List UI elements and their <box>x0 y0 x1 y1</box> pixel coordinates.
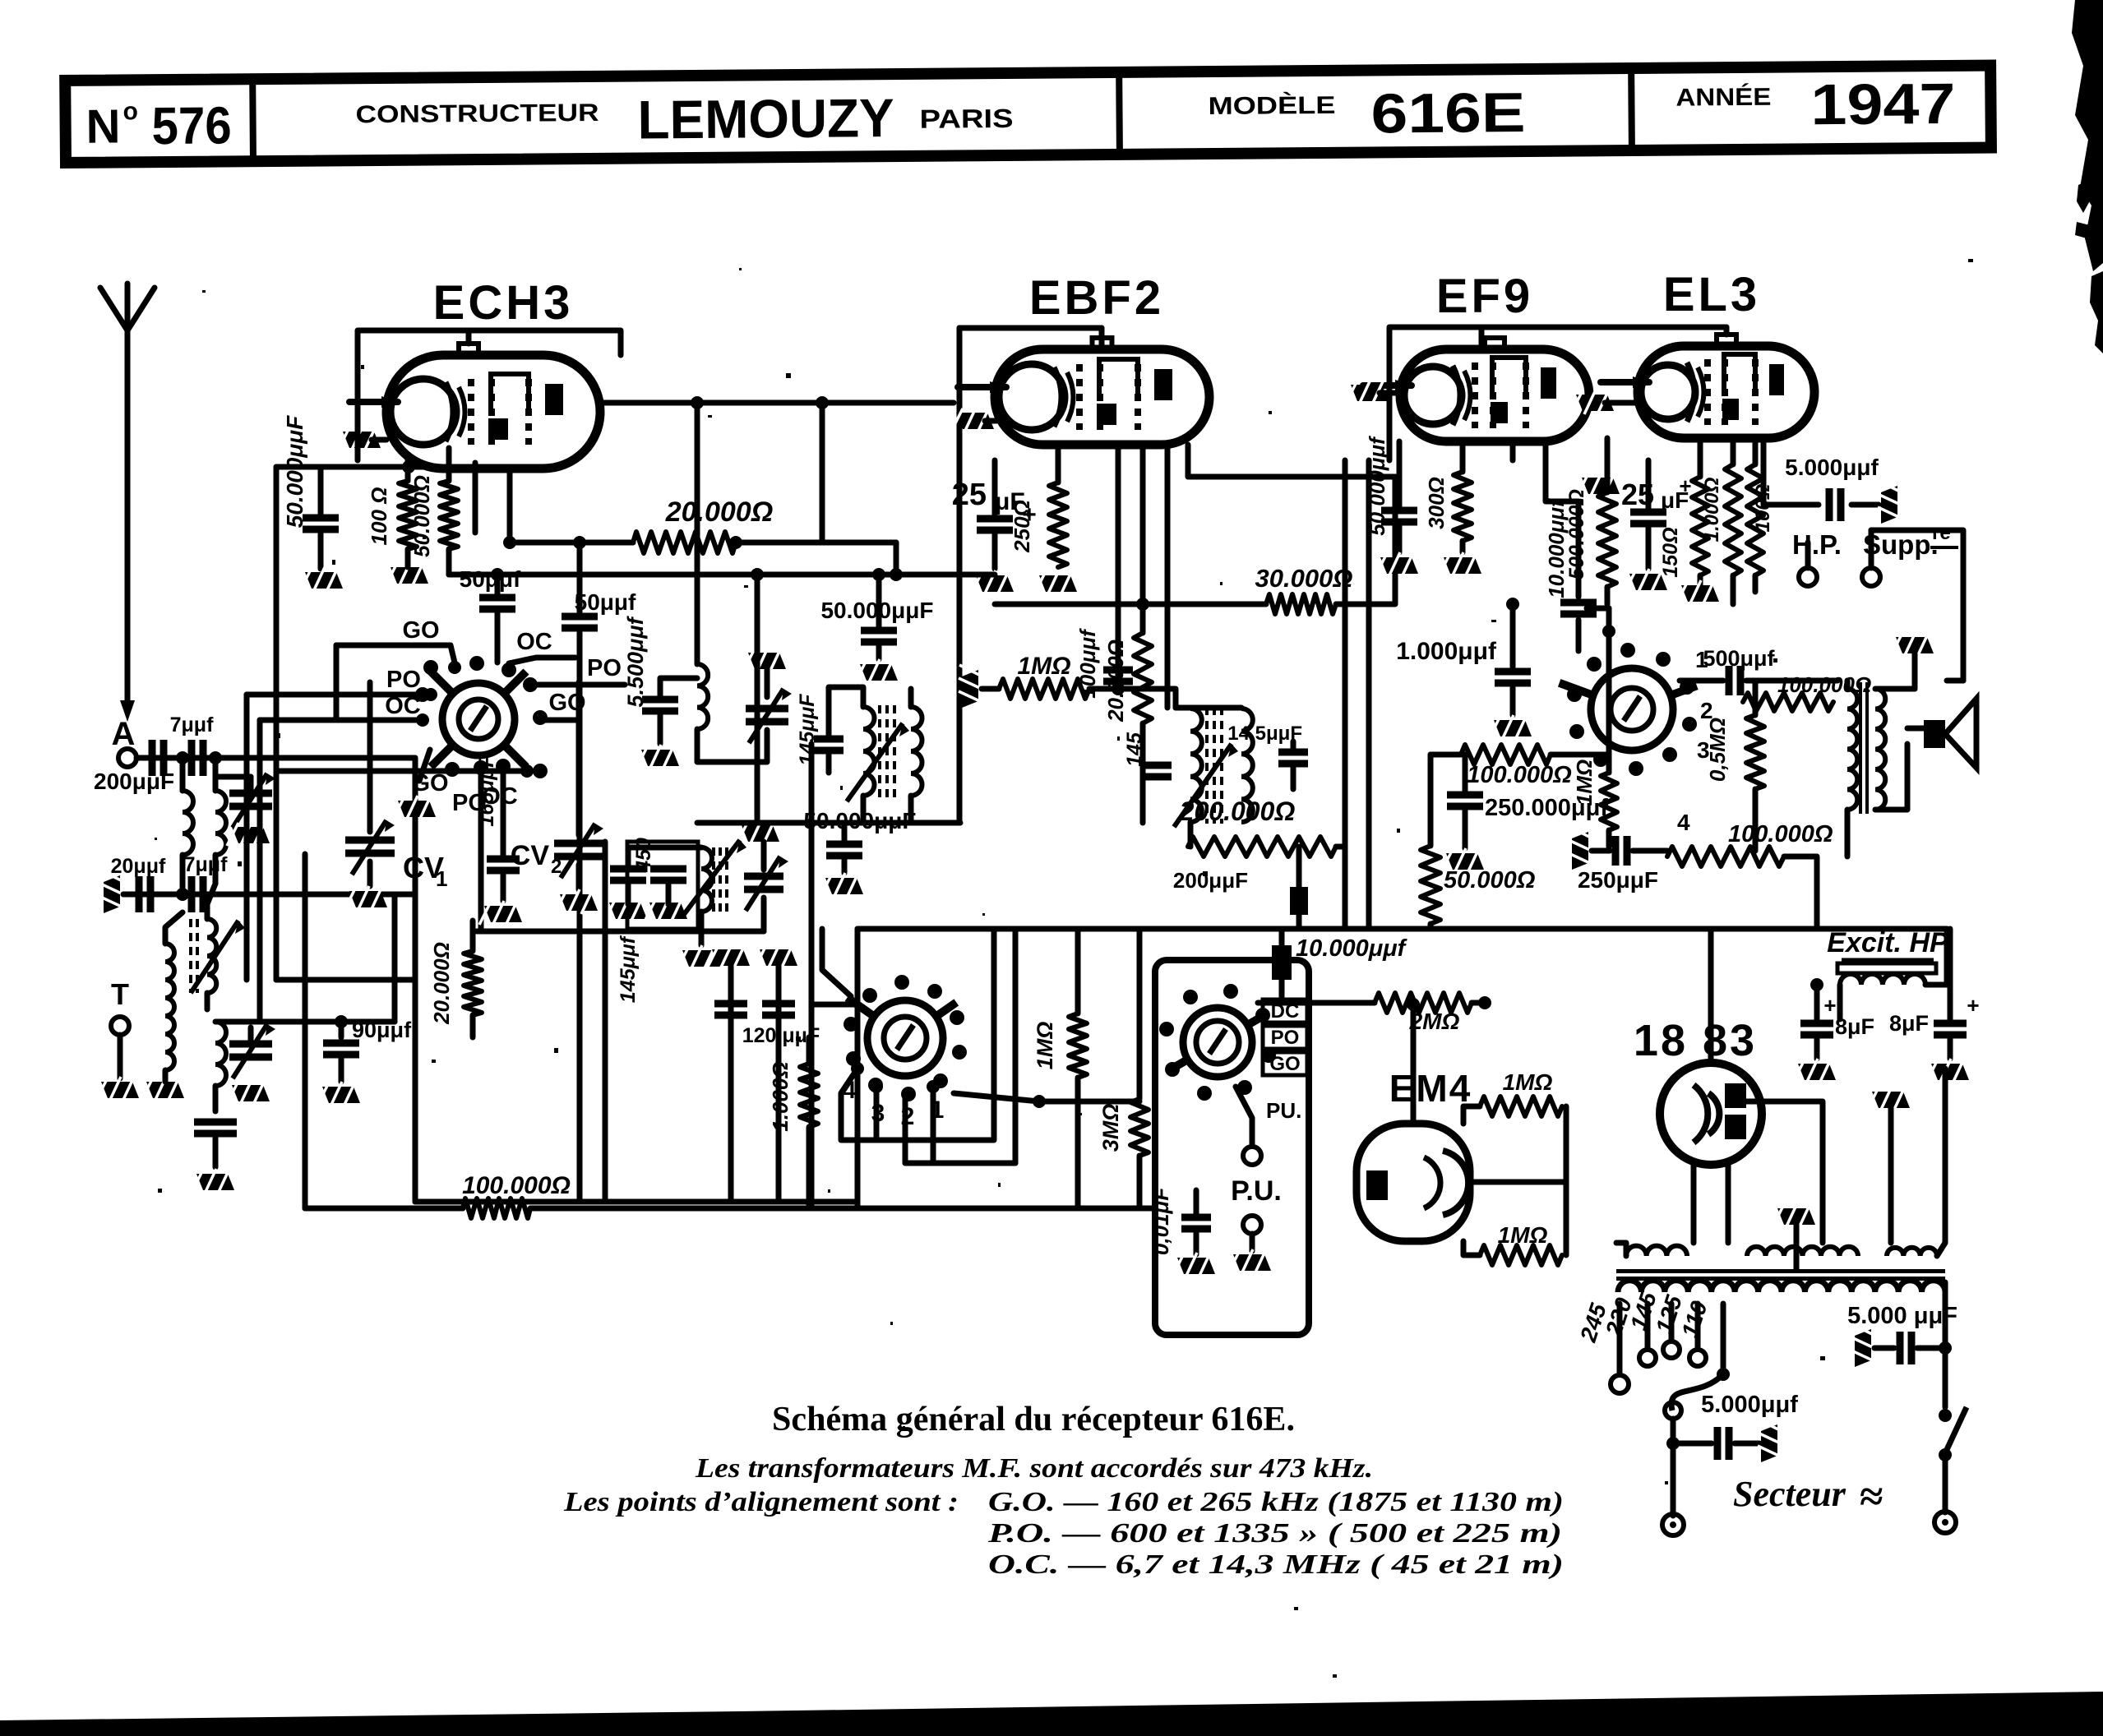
svg-text:20μμf: 20μμf <box>111 855 166 878</box>
svg-text:8μF: 8μF <box>1835 1014 1874 1039</box>
svg-text:10.000μμf: 10.000μμf <box>1296 935 1408 962</box>
svg-text:50μμf: 50μμf <box>575 589 636 615</box>
svg-text:0,5MΩ: 0,5MΩ <box>1705 718 1730 782</box>
svg-text:A: A <box>112 716 136 752</box>
svg-text:≈: ≈ <box>1860 1474 1883 1521</box>
svg-text:+: + <box>1823 993 1836 1018</box>
svg-text:5.000μμf: 5.000μμf <box>1701 1392 1798 1418</box>
svg-text:50.000Ω: 50.000Ω <box>1444 867 1536 893</box>
svg-text:200μμF: 200μμF <box>94 769 174 794</box>
svg-text:7μμf: 7μμf <box>170 713 214 736</box>
svg-text:300Ω: 300Ω <box>1424 477 1449 529</box>
svg-text:EL3: EL3 <box>1663 268 1760 321</box>
svg-text:165μμF: 165μμF <box>475 755 498 827</box>
svg-text:7μμf: 7μμf <box>184 853 228 876</box>
svg-text:GO: GO <box>402 617 439 644</box>
svg-text:100.000Ω: 100.000Ω <box>1467 762 1572 788</box>
svg-text:30.000Ω: 30.000Ω <box>1255 564 1352 593</box>
svg-text:EF9: EF9 <box>1436 270 1533 323</box>
svg-text:5.500μμf: 5.500μμf <box>623 615 648 707</box>
svg-text:20.000Ω: 20.000Ω <box>429 942 454 1025</box>
svg-text:OC: OC <box>385 693 421 719</box>
svg-text:1MΩ: 1MΩ <box>1017 653 1070 680</box>
svg-text:0,01μF: 0,01μF <box>1149 1187 1173 1255</box>
svg-text:1.000Ω: 1.000Ω <box>768 1061 793 1131</box>
svg-text:250μμF: 250μμF <box>1578 867 1658 893</box>
svg-text:4: 4 <box>1677 810 1690 835</box>
svg-text:N: N <box>86 99 120 153</box>
svg-text:1MΩ: 1MΩ <box>1572 759 1597 806</box>
svg-text:250Ω: 250Ω <box>1010 500 1034 553</box>
svg-text:G.O. — 160 et 265 kHz (1875: G.O. — 160 et 265 kHz (1875 et 1130 m) <box>988 1487 1564 1517</box>
svg-text:EBF2: EBF2 <box>1029 271 1164 325</box>
svg-text:1947: 1947 <box>1810 72 1956 136</box>
svg-text:100.000Ω: 100.000Ω <box>462 1172 571 1199</box>
svg-text:100 Ω: 100 Ω <box>367 487 391 546</box>
svg-text:GO: GO <box>1269 1053 1300 1075</box>
svg-text:EM4: EM4 <box>1389 1067 1472 1110</box>
svg-text:GO: GO <box>411 770 448 796</box>
svg-text:CONSTRUCTEUR: CONSTRUCTEUR <box>355 99 599 128</box>
svg-text:1MΩ: 1MΩ <box>1498 1222 1548 1248</box>
svg-text:145μμF: 145μμF <box>796 694 819 766</box>
svg-text:P.U.: P.U. <box>1231 1175 1282 1207</box>
svg-text:ANNÉE: ANNÉE <box>1675 83 1771 112</box>
svg-text:200μμF: 200μμF <box>1173 868 1248 893</box>
svg-text:LEMOUZY: LEMOUZY <box>637 87 894 150</box>
svg-text:5.000μμf: 5.000μμf <box>1785 455 1879 480</box>
svg-text:8μF: 8μF <box>1889 1011 1929 1036</box>
svg-text:1MΩ: 1MΩ <box>1503 1069 1553 1095</box>
svg-text:150Ω: 150Ω <box>1659 527 1682 577</box>
svg-text:T: T <box>111 977 129 1011</box>
svg-text:OC: OC <box>516 629 552 655</box>
svg-text:PARIS: PARIS <box>919 104 1013 134</box>
svg-text:2: 2 <box>551 856 562 878</box>
svg-text:1MΩ: 1MΩ <box>1033 1022 1057 1070</box>
svg-text:200.000Ω: 200.000Ω <box>1179 796 1296 826</box>
svg-text:25: 25 <box>952 478 987 512</box>
svg-text:Excit. HP: Excit. HP <box>1827 927 1948 958</box>
svg-text:3MΩ: 3MΩ <box>1098 1104 1123 1152</box>
svg-text:5.000 μμF: 5.000 μμF <box>1847 1303 1957 1329</box>
svg-text:Les points d’alignement sont :: Les points d’alignement sont : <box>563 1487 959 1517</box>
svg-text:MODÈLE: MODÈLE <box>1208 91 1335 120</box>
svg-text:Supp.: Supp. <box>1863 529 1939 560</box>
svg-text:PO: PO <box>1271 1027 1300 1049</box>
svg-text:PU.: PU. <box>1266 1098 1301 1123</box>
svg-text:1.000μμf: 1.000μμf <box>1396 638 1497 665</box>
svg-text:+: + <box>1679 473 1691 498</box>
svg-text:90μμf: 90μμf <box>352 1018 412 1042</box>
svg-text:50.000Ω: 50.000Ω <box>409 475 434 557</box>
svg-text:Les transformateurs M.F. sont: Les transformateurs M.F. sont accordés s… <box>695 1453 1373 1484</box>
svg-text:145: 145 <box>1123 732 1146 767</box>
svg-text:O.C. — 6,7 et 14,3 MHz ( 45: O.C. — 6,7 et 14,3 MHz ( 45 et 21 m) <box>988 1549 1564 1580</box>
svg-text:+: + <box>1967 993 1979 1018</box>
svg-text:20.000Ω: 20.000Ω <box>1103 639 1128 723</box>
svg-text:50.000μμF: 50.000μμF <box>803 808 916 833</box>
svg-text:PO: PO <box>386 667 421 693</box>
svg-text:100.000Ω: 100.000Ω <box>1728 821 1833 847</box>
svg-text:1.000Ω: 1.000Ω <box>1701 477 1723 542</box>
svg-text:576: 576 <box>151 95 232 155</box>
svg-text:100μμf: 100μμf <box>1075 628 1100 699</box>
svg-text:50.000μμF: 50.000μμF <box>282 415 307 528</box>
svg-text:P.O. — 600 et 1335 » ( 5: P.O. — 600 et 1335 » ( 500 et 225 m) <box>987 1518 1562 1549</box>
svg-text:50μμf: 50μμf <box>460 566 521 592</box>
svg-text:H.P.: H.P. <box>1792 529 1842 560</box>
svg-text:1: 1 <box>436 866 447 891</box>
svg-text:616E: 616E <box>1370 81 1526 145</box>
svg-text:Schéma général du récepteur 61: Schéma général du récepteur 616E. <box>772 1401 1295 1438</box>
svg-text:145μμf: 145μμf <box>617 935 640 1003</box>
svg-text:o: o <box>122 98 138 125</box>
svg-text:Secteur: Secteur <box>1733 1474 1846 1514</box>
svg-text:500.000Ω: 500.000Ω <box>1565 489 1588 579</box>
svg-text:20.000Ω: 20.000Ω <box>665 496 774 528</box>
svg-text:PO: PO <box>587 655 622 681</box>
svg-text:ECH3: ECH3 <box>433 276 574 330</box>
svg-text:18 83: 18 83 <box>1634 1016 1757 1065</box>
